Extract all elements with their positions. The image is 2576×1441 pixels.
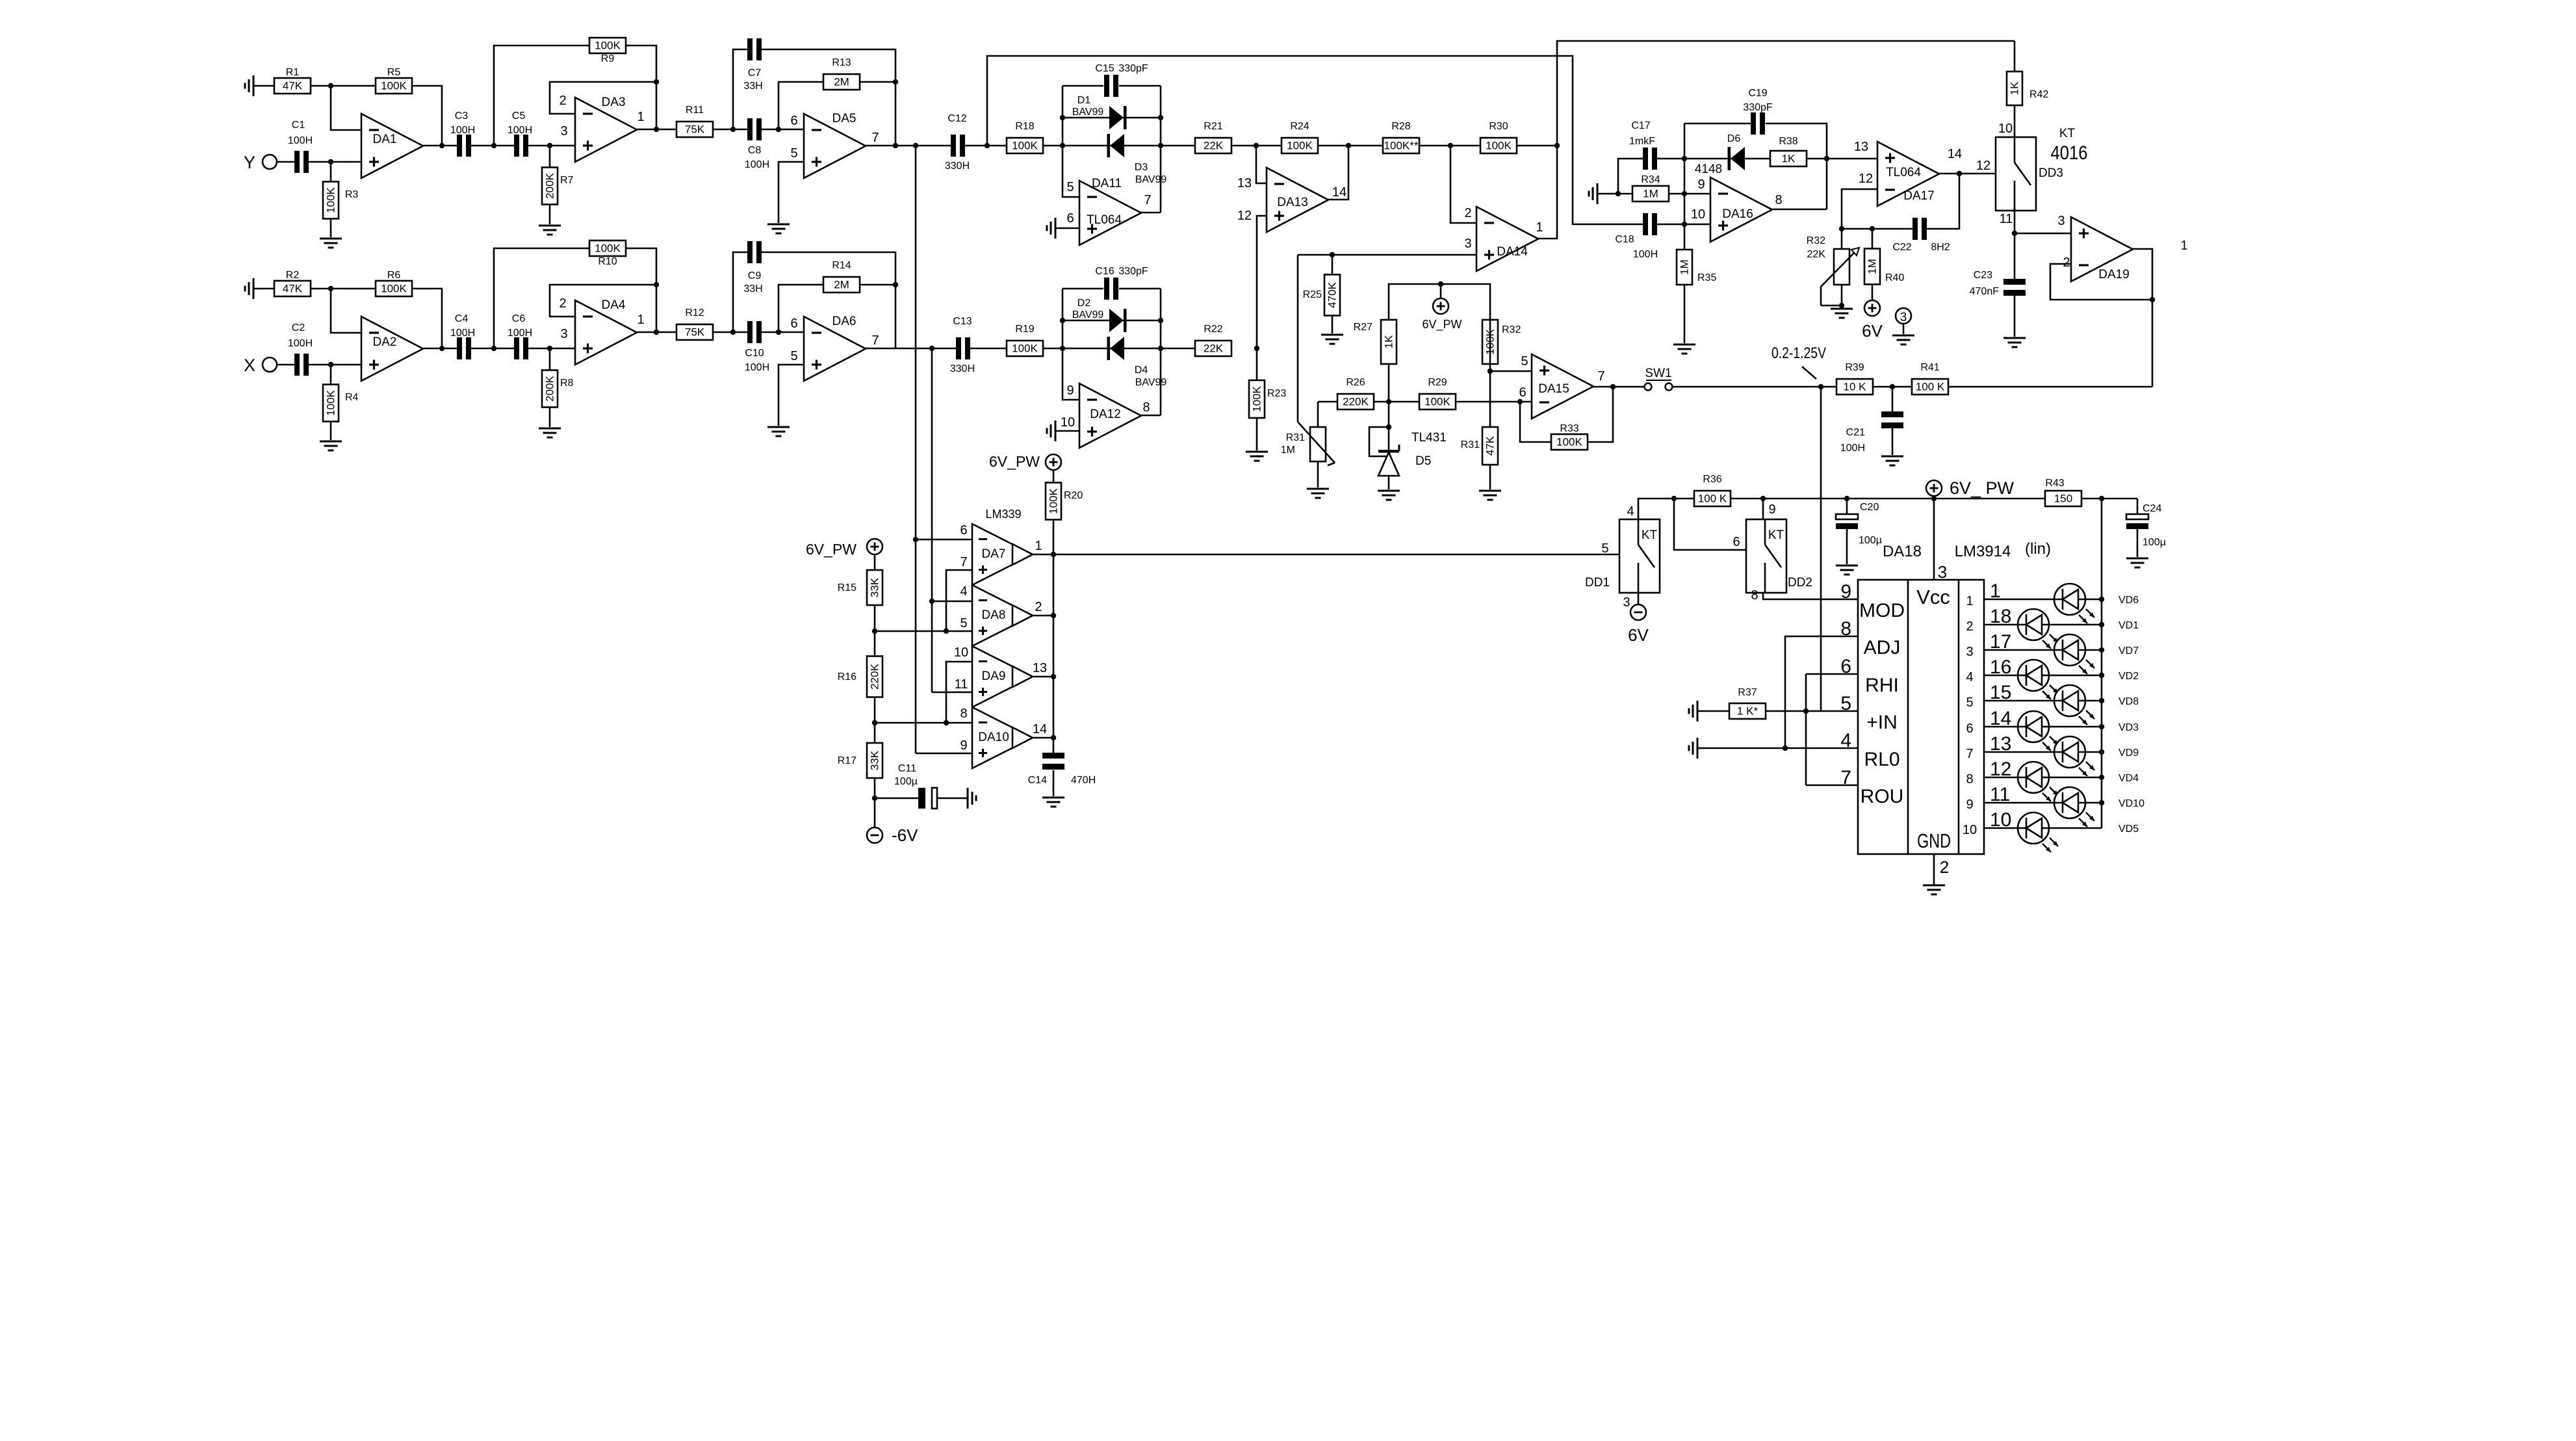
svg-text:7: 7 <box>1144 193 1151 207</box>
svg-text:VD3: VD3 <box>2119 722 2139 733</box>
node R22/R23 <box>1254 346 1259 351</box>
svg-text:DA9: DA9 <box>982 669 1006 683</box>
capacitor C11 <box>918 788 937 809</box>
node LED bus VD4 <box>2099 775 2104 780</box>
svg-text:C3: C3 <box>455 110 469 122</box>
node DA5 pin6 <box>776 127 781 132</box>
diode D6 <box>1728 147 1745 170</box>
svg-text:330pF: 330pF <box>1743 102 1773 113</box>
ground (R4) <box>320 441 342 450</box>
svg-text:100H: 100H <box>288 135 313 146</box>
node LED bus VD8 <box>2099 698 2104 703</box>
wire DA4 pin2 feedback <box>550 285 656 317</box>
ground (R31 47K) <box>1479 491 1501 500</box>
ground (R3) <box>320 239 342 248</box>
wire 6V_PW top <box>1389 284 1490 320</box>
wire C20 vertical <box>1846 499 1848 564</box>
wire DA19 -in jog <box>2050 264 2152 300</box>
svg-text:12: 12 <box>1237 209 1252 223</box>
pointer 0.2-1.25V <box>1802 367 1816 379</box>
node LED bus VD2 <box>2099 673 2104 678</box>
wire DA7 out <box>1033 554 1053 556</box>
wire DA14 output <box>1538 146 1557 239</box>
diode D1 <box>1109 106 1127 129</box>
wire C11 line <box>875 798 920 799</box>
potentiometer R31 1M <box>1281 402 1335 487</box>
svg-text:R43: R43 <box>2045 478 2064 489</box>
node DA3 +in junction <box>547 143 552 148</box>
wire comparator output bus <box>1053 520 1055 738</box>
svg-text:6: 6 <box>790 114 797 128</box>
wire DA10 +in <box>916 753 972 755</box>
svg-text:RHI: RHI <box>1865 675 1899 696</box>
svg-text:C10: C10 <box>745 348 764 359</box>
resistor R21 <box>1195 121 1231 153</box>
resistor R1 <box>274 67 311 94</box>
svg-text:ADJ: ADJ <box>1864 637 1901 658</box>
svg-text:47K: 47K <box>1484 435 1497 456</box>
wire LED row VD5 <box>1984 827 2102 829</box>
diode D3 <box>1107 134 1125 157</box>
svg-text:8: 8 <box>1142 400 1150 415</box>
node R32 bottom <box>1839 303 1844 308</box>
svg-text:10: 10 <box>954 645 968 660</box>
power -6V <box>867 825 918 845</box>
wire R31b to ground <box>1489 465 1491 489</box>
wire D-block2 right vertical <box>1160 289 1162 415</box>
wire R29 to DA15 -in <box>1455 401 1532 403</box>
svg-text:R17: R17 <box>838 755 857 766</box>
ground (R32) <box>1831 309 1853 318</box>
node R25 tap <box>1330 252 1335 257</box>
svg-text:4148: 4148 <box>1695 162 1722 176</box>
wire R33 to -in <box>1520 402 1551 442</box>
svg-text:R9: R9 <box>601 53 615 64</box>
svg-text:DA13: DA13 <box>1277 196 1308 209</box>
node DA5 out b <box>913 143 918 148</box>
node R14/C9 junction <box>893 282 898 287</box>
wire R23 vertical <box>1256 348 1258 450</box>
capacitor C1 <box>288 120 313 173</box>
svg-text:9: 9 <box>1966 798 1973 812</box>
svg-text:100H: 100H <box>745 159 769 170</box>
wire DA16 output <box>1771 209 1827 211</box>
node R18 left rail tap <box>985 143 990 148</box>
resistor R8 <box>542 370 574 408</box>
svg-text:R3: R3 <box>345 189 359 200</box>
wire 6V_PW to R15 <box>874 554 876 570</box>
svg-text:C12: C12 <box>947 113 966 124</box>
svg-text:R16: R16 <box>838 671 857 682</box>
svg-text:D5: D5 <box>1415 454 1431 468</box>
svg-text:DA15: DA15 <box>1538 382 1569 396</box>
resistor R41 <box>1912 362 1948 395</box>
wire LED row VD8 <box>1984 700 2102 702</box>
node R33 tap <box>1517 399 1523 404</box>
svg-text:14: 14 <box>1332 185 1346 200</box>
wire TL431 vertical <box>1388 402 1390 451</box>
capacitor C5 <box>508 110 532 157</box>
wire R30 to riser <box>1517 145 1557 147</box>
svg-text:100K: 100K <box>595 40 621 52</box>
svg-text:R27: R27 <box>1354 322 1372 333</box>
svg-text:100H: 100H <box>1633 249 1658 260</box>
wire C14 top <box>1053 738 1055 753</box>
svg-text:12: 12 <box>1859 172 1873 186</box>
capacitor C17 <box>1629 120 1657 170</box>
svg-text:VD9: VD9 <box>2119 747 2139 759</box>
svg-text:C11: C11 <box>898 763 916 774</box>
svg-text:100K: 100K <box>1251 385 1263 411</box>
node D-block2 right <box>1158 346 1163 351</box>
diode D4 <box>1107 337 1125 360</box>
resistor R18 <box>1007 121 1043 153</box>
ground (input bias R1) <box>245 75 253 96</box>
node LED bus VD1 <box>2099 622 2104 627</box>
svg-text:6: 6 <box>1519 385 1526 400</box>
wire D6 line <box>1684 158 1770 160</box>
wire DA19 +in <box>2015 233 2071 235</box>
ground (R35) <box>1673 344 1695 354</box>
wire DA10 out <box>1033 737 1053 739</box>
svg-text:R25: R25 <box>1303 289 1322 300</box>
wire R9 to DA3 output <box>626 45 656 129</box>
node R34 left <box>1616 191 1621 196</box>
svg-text:12: 12 <box>1976 159 1990 173</box>
capacitor C23 <box>1970 270 2026 297</box>
svg-text:33K: 33K <box>869 577 881 597</box>
wire R2 left <box>253 288 274 290</box>
svg-text:100K: 100K <box>1287 140 1313 152</box>
ground (R23) <box>1246 452 1268 461</box>
svg-text:LM3914: LM3914 <box>1955 543 2011 560</box>
svg-text:13: 13 <box>1033 661 1047 675</box>
svg-text:C5: C5 <box>512 110 526 122</box>
wire R42 to DD3 <box>2014 105 2016 137</box>
svg-text:3: 3 <box>1464 237 1471 251</box>
wire R8 vertical <box>549 348 551 427</box>
svg-text:5: 5 <box>1966 695 1973 710</box>
capacitor C9 <box>743 241 762 294</box>
node 0.2-1.25V <box>1818 384 1823 389</box>
wire DA2 inverting input <box>331 289 361 333</box>
ground (C20) <box>1836 565 1858 575</box>
svg-text:7: 7 <box>960 555 967 569</box>
wire R34 to DA16 -in <box>1669 193 1710 195</box>
comparator DA7 <box>960 523 1042 585</box>
wire D-block right vertical <box>1160 86 1162 213</box>
svg-text:R37: R37 <box>1738 687 1757 698</box>
node R35 tap <box>1682 222 1687 227</box>
svg-text:100H: 100H <box>508 328 532 339</box>
LED VD3 <box>2018 711 2139 751</box>
node D2 right <box>1158 318 1163 323</box>
svg-text:R14: R14 <box>832 260 851 271</box>
resistor R26 <box>1337 377 1374 409</box>
op-amp DA16 <box>1691 177 1783 242</box>
resistor R2 <box>274 270 311 296</box>
svg-text:R26: R26 <box>1346 377 1365 388</box>
wire DA13 -in <box>1256 146 1267 183</box>
svg-text:22K: 22K <box>1204 343 1224 355</box>
svg-text:33K: 33K <box>869 750 881 770</box>
wire R18 to D-block <box>1043 145 1195 147</box>
svg-text:6: 6 <box>960 523 967 538</box>
svg-text:VD6: VD6 <box>2119 595 2139 606</box>
resistor R37 <box>1729 687 1766 719</box>
wire DA9 +in <box>932 692 972 694</box>
svg-text:3: 3 <box>2057 214 2065 228</box>
svg-text:C7: C7 <box>748 68 762 79</box>
wire R14 to junction <box>860 284 895 286</box>
wire R10 to DA4 output <box>626 248 656 332</box>
svg-text:BAV99: BAV99 <box>1135 377 1167 388</box>
svg-text:(lin): (lin) <box>2025 540 2051 558</box>
svg-text:200K: 200K <box>544 172 556 198</box>
wire DA11 output <box>1140 212 1161 214</box>
ground (C11) <box>968 788 976 809</box>
wire 6V_PW stub <box>1440 284 1442 299</box>
resistor R11 <box>676 105 713 137</box>
svg-text:4: 4 <box>960 584 967 599</box>
svg-text:R1: R1 <box>286 67 300 78</box>
svg-text:R18: R18 <box>1015 121 1034 132</box>
wire DA13 +in vertical <box>1257 216 1267 348</box>
svg-text:C16: C16 <box>1095 266 1114 277</box>
capacitor C7 <box>743 38 762 92</box>
wire DA6 pin5 ground <box>779 365 804 426</box>
svg-text:7: 7 <box>1597 369 1604 383</box>
svg-text:DA11: DA11 <box>1092 177 1122 190</box>
node DA6 out b <box>929 346 934 351</box>
svg-text:1: 1 <box>637 110 644 124</box>
svg-text:R8: R8 <box>560 378 574 389</box>
svg-text:DA17: DA17 <box>1903 189 1935 203</box>
wire LED row VD4 <box>1984 777 2102 779</box>
svg-text:2: 2 <box>1940 857 1949 877</box>
svg-text:BAV99: BAV99 <box>1072 107 1104 118</box>
LED VD7 <box>2054 634 2139 674</box>
svg-text:11: 11 <box>955 677 968 692</box>
svg-text:2: 2 <box>559 296 566 311</box>
capacitor C16 <box>1095 266 1148 300</box>
wire DA1 inverting input <box>331 86 361 130</box>
svg-text:D6: D6 <box>1727 133 1741 144</box>
svg-text:R12: R12 <box>685 307 704 318</box>
svg-text:22K: 22K <box>1807 249 1826 260</box>
svg-text:R6: R6 <box>387 270 401 281</box>
svg-text:100H: 100H <box>450 328 475 339</box>
resistor R36 <box>1694 474 1731 506</box>
wire R39 to R41 <box>1873 386 1912 388</box>
svg-text:220K: 220K <box>869 663 881 689</box>
svg-text:MOD: MOD <box>1859 600 1905 621</box>
power 6V_PW (comparator ladder) <box>806 539 882 558</box>
resistor R12 <box>676 307 713 340</box>
capacitor C22 <box>1892 218 1950 253</box>
svg-text:2: 2 <box>1464 206 1471 220</box>
wire C16 left <box>1063 288 1103 290</box>
node out2 <box>1051 613 1056 618</box>
wire R37 line <box>1697 710 1858 712</box>
svg-text:C2: C2 <box>292 322 305 333</box>
svg-text:100K: 100K <box>595 242 621 255</box>
diode D2 <box>1109 309 1127 332</box>
op-amp DA5 <box>790 112 879 178</box>
svg-text:R30: R30 <box>1489 121 1508 132</box>
node Y input junction <box>328 159 333 164</box>
svg-text:100K: 100K <box>1012 140 1038 152</box>
svg-text:1M: 1M <box>1866 259 1879 274</box>
wire C23 vertical <box>2014 233 2016 337</box>
svg-text:Y: Y <box>244 153 255 172</box>
wire C19 loop <box>1684 123 1751 125</box>
node DA19 feedback <box>2150 297 2155 302</box>
svg-text:5: 5 <box>1521 354 1528 369</box>
svg-text:10: 10 <box>1963 823 1977 837</box>
svg-text:R4: R4 <box>345 392 359 403</box>
svg-text:100µ: 100µ <box>1859 535 1882 546</box>
op-amp DA14 <box>1464 206 1543 271</box>
svg-text:7: 7 <box>1966 747 1973 761</box>
svg-text:7: 7 <box>871 333 879 348</box>
wire R10 feedback <box>494 248 589 348</box>
wire DA8 +in line <box>875 630 972 632</box>
svg-text:330pF: 330pF <box>1118 266 1148 277</box>
svg-text:DA7: DA7 <box>982 547 1006 561</box>
wire C19 right <box>1766 123 1827 209</box>
wire R26 to R29 <box>1374 401 1419 403</box>
svg-text:C20: C20 <box>1860 502 1879 513</box>
node D1 left <box>1060 115 1065 120</box>
capacitor C10 <box>745 321 769 373</box>
op-amp DA13 <box>1237 168 1346 232</box>
svg-text:5: 5 <box>960 616 967 630</box>
analog switch DD2 (4016) <box>1746 502 1812 603</box>
op-amp DA1 <box>361 114 423 178</box>
svg-text:DA16: DA16 <box>1722 207 1753 221</box>
wire DA2 output line <box>423 348 575 350</box>
wire DA12 output <box>1140 415 1161 417</box>
node DA4 +in junction <box>547 346 552 351</box>
wire DA11 +in <box>1055 227 1079 229</box>
capacitor C24 <box>2126 514 2148 529</box>
wire R4 vertical <box>330 365 332 440</box>
LED VD9 <box>2054 736 2139 776</box>
node N1 after R11 <box>730 127 736 132</box>
wire DA5 output line <box>865 145 1007 147</box>
svg-text:R29: R29 <box>1428 377 1447 388</box>
svg-text:DD2: DD2 <box>1788 576 1812 590</box>
wire pot R31 wiper riser <box>1297 255 1299 422</box>
wire RHI stub <box>1806 673 1858 675</box>
svg-text:R23: R23 <box>1267 388 1286 399</box>
wire R38 to DA17 +in <box>1807 158 1877 160</box>
op-amp DA15 <box>1519 354 1604 419</box>
wire C15 right <box>1119 85 1161 87</box>
wire C22 to DA17 out <box>1927 174 1959 229</box>
LED VD5 <box>2018 812 2139 852</box>
node R15/R16 <box>872 629 877 634</box>
node pin10 join <box>944 720 949 725</box>
wire X input to DA2 <box>277 364 361 366</box>
svg-text:R34: R34 <box>1641 174 1660 185</box>
svg-text:1: 1 <box>1536 220 1543 235</box>
node DA15 out <box>1610 384 1616 389</box>
ground (LM3914) <box>1923 885 1945 894</box>
svg-text:6: 6 <box>1732 535 1740 549</box>
svg-text:3: 3 <box>1966 645 1973 659</box>
node LED bus VD3 <box>2099 724 2104 729</box>
wire R25 vertical <box>1332 255 1333 333</box>
power 6V_PW (TL431) <box>1422 298 1462 331</box>
svg-text:R35: R35 <box>1697 272 1716 283</box>
wire ADJ jog <box>1785 636 1858 748</box>
node pin7 join <box>944 629 949 634</box>
wire D-block2 left vertical <box>1063 289 1079 400</box>
wire 6V_PW to R20 <box>1053 470 1055 483</box>
svg-text:5: 5 <box>1601 541 1608 556</box>
svg-text:R21: R21 <box>1204 121 1222 132</box>
node R36 right <box>1760 496 1766 501</box>
svg-text:100 K: 100 K <box>1916 381 1945 393</box>
wire RL0 line <box>1697 747 1858 749</box>
resistor R23 <box>1249 380 1286 418</box>
op-amp DA11 <box>1066 177 1151 245</box>
wire LM3914 GND stub <box>1933 854 1935 885</box>
wire R1 to R5 <box>311 85 376 87</box>
svg-text:C1: C1 <box>292 120 305 131</box>
resistor R19 <box>1007 324 1043 356</box>
svg-text:R15: R15 <box>838 582 857 593</box>
svg-text:R41: R41 <box>1920 362 1939 373</box>
svg-text:VD1: VD1 <box>2119 620 2139 631</box>
capacitor C12 <box>945 113 970 172</box>
svg-text:VD5: VD5 <box>2119 824 2139 835</box>
node DA4 output <box>654 330 659 335</box>
wire DD1 pin4 <box>1638 499 1674 519</box>
svg-text:6V: 6V <box>1862 321 1883 341</box>
svg-text:100H: 100H <box>508 125 532 136</box>
wire TL431 ref bracket <box>1369 427 1389 456</box>
resistor R35 <box>1677 250 1716 285</box>
wire RHI-ROU vertical <box>1805 674 1807 785</box>
ground (R7) <box>539 226 561 235</box>
wire R15 to R16 <box>874 605 876 656</box>
capacitor C3 <box>450 110 475 157</box>
svg-text:100K: 100K <box>1048 487 1060 513</box>
node DA15 +in <box>1488 369 1493 374</box>
node R34/-in <box>1682 191 1687 196</box>
wire R6 to DA2 output node <box>412 289 442 348</box>
wire C18 to DA16 +in <box>1657 224 1710 226</box>
svg-text:150: 150 <box>2054 493 2072 505</box>
svg-text:R31: R31 <box>1461 439 1480 450</box>
svg-text:4016: 4016 <box>2051 142 2088 164</box>
node C11 <box>872 796 877 801</box>
svg-text:33H: 33H <box>743 81 762 92</box>
wire rail63 riser <box>1557 41 2015 146</box>
wire R32 to DA15 +in <box>1490 320 1532 371</box>
svg-text:1M: 1M <box>1281 445 1295 456</box>
power 6V (DD1) <box>1628 604 1649 645</box>
svg-text:1: 1 <box>1035 539 1042 553</box>
node 6V_PW tap <box>1438 281 1443 287</box>
resistor R4 <box>323 385 359 422</box>
wire R41 to DA19 out <box>1948 386 2152 388</box>
svg-text:C15: C15 <box>1095 63 1114 74</box>
svg-text:R22: R22 <box>1204 324 1222 335</box>
